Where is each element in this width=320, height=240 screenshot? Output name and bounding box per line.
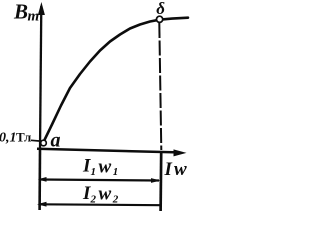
dimension line I2w2 <box>41 203 162 206</box>
svg-text:w: w <box>174 159 187 180</box>
dimension arrow right I1w1 <box>151 178 161 183</box>
svg-text:1: 1 <box>113 166 119 178</box>
dimension line I1w1 <box>41 180 159 181</box>
svg-text:1: 1 <box>91 166 97 178</box>
svg-text:2: 2 <box>112 193 119 205</box>
svg-text:I: I <box>164 159 173 180</box>
node delta (open circle) <box>157 16 163 22</box>
svg-text:2: 2 <box>90 193 97 205</box>
svg-text:w: w <box>99 184 112 205</box>
dimension arrow left I1w1 <box>38 177 47 182</box>
y-axis <box>40 6 41 150</box>
dashed drop line from delta to x-axis <box>159 23 161 150</box>
dimension arrow left I2w2 <box>37 202 47 207</box>
svg-text:a: a <box>51 130 61 152</box>
left extension line below axis <box>38 150 41 210</box>
x-axis arrowhead <box>174 149 187 156</box>
svg-text:m: m <box>28 8 40 24</box>
node a (open circle) <box>41 140 47 146</box>
y-axis arrowhead <box>38 2 45 15</box>
svg-text:w: w <box>99 156 112 177</box>
svg-text:Тл: Тл <box>16 130 31 145</box>
svg-text:δ: δ <box>156 0 165 18</box>
right extension line below axis <box>159 152 162 211</box>
x-axis <box>37 149 178 153</box>
tick dash from 0,1 Tl label <box>31 139 39 142</box>
svg-text:B: B <box>13 0 28 23</box>
magnetization curve <box>44 18 189 142</box>
svg-text:0,1: 0,1 <box>0 131 17 146</box>
